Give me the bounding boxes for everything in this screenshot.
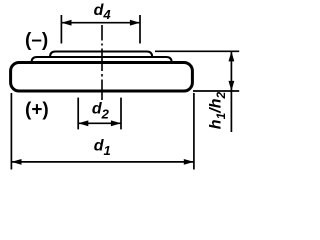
svg-text:d4: d4 [94, 2, 112, 22]
svg-text:d1: d1 [94, 137, 111, 158]
svg-text:(+): (+) [25, 99, 49, 120]
svg-text:h1/h2: h1/h2 [208, 92, 228, 130]
svg-text:(–): (–) [25, 30, 48, 51]
svg-text:d2: d2 [92, 101, 110, 122]
